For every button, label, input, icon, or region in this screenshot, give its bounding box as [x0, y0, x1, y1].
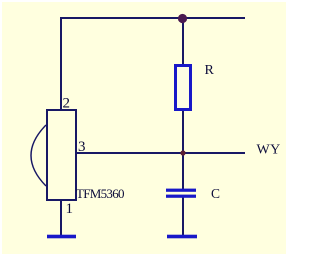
capacitor C bottom plate — [166, 195, 196, 198]
svg-text:R: R — [205, 63, 215, 78]
junction node at middle wire — [180, 150, 185, 155]
resistor R — [176, 66, 191, 110]
wire: left vertical from rail to pin 2 — [60, 17, 62, 110]
ground bar under capacitor — [167, 235, 197, 239]
schematic background panel — [2, 2, 286, 254]
svg-text:1: 1 — [66, 201, 74, 217]
wire: pin 1 to ground — [60, 200, 62, 236]
svg-text:TFM5360: TFM5360 — [76, 186, 124, 201]
capacitor C top plate — [166, 189, 196, 192]
wire: middle horizontal (pin 3 to WY) — [75, 152, 245, 154]
svg-text:2: 2 — [63, 96, 71, 112]
svg-text:3: 3 — [78, 139, 86, 155]
svg-text:WY: WY — [257, 143, 281, 158]
wire: rail to resistor top — [182, 18, 184, 65]
IR receiver lens arc — [31, 125, 46, 186]
junction node at rail/resistor — [178, 14, 187, 23]
wire: capacitor bottom to ground — [182, 197, 184, 236]
svg-text:C: C — [211, 186, 220, 201]
wire: node to capacitor top — [182, 153, 184, 189]
ground bar under pin 1 — [47, 235, 76, 239]
wire: resistor bottom to middle node — [182, 110, 184, 154]
wire: top supply rail — [60, 17, 245, 19]
IR receiver U1 TFM5360 body — [47, 110, 76, 200]
